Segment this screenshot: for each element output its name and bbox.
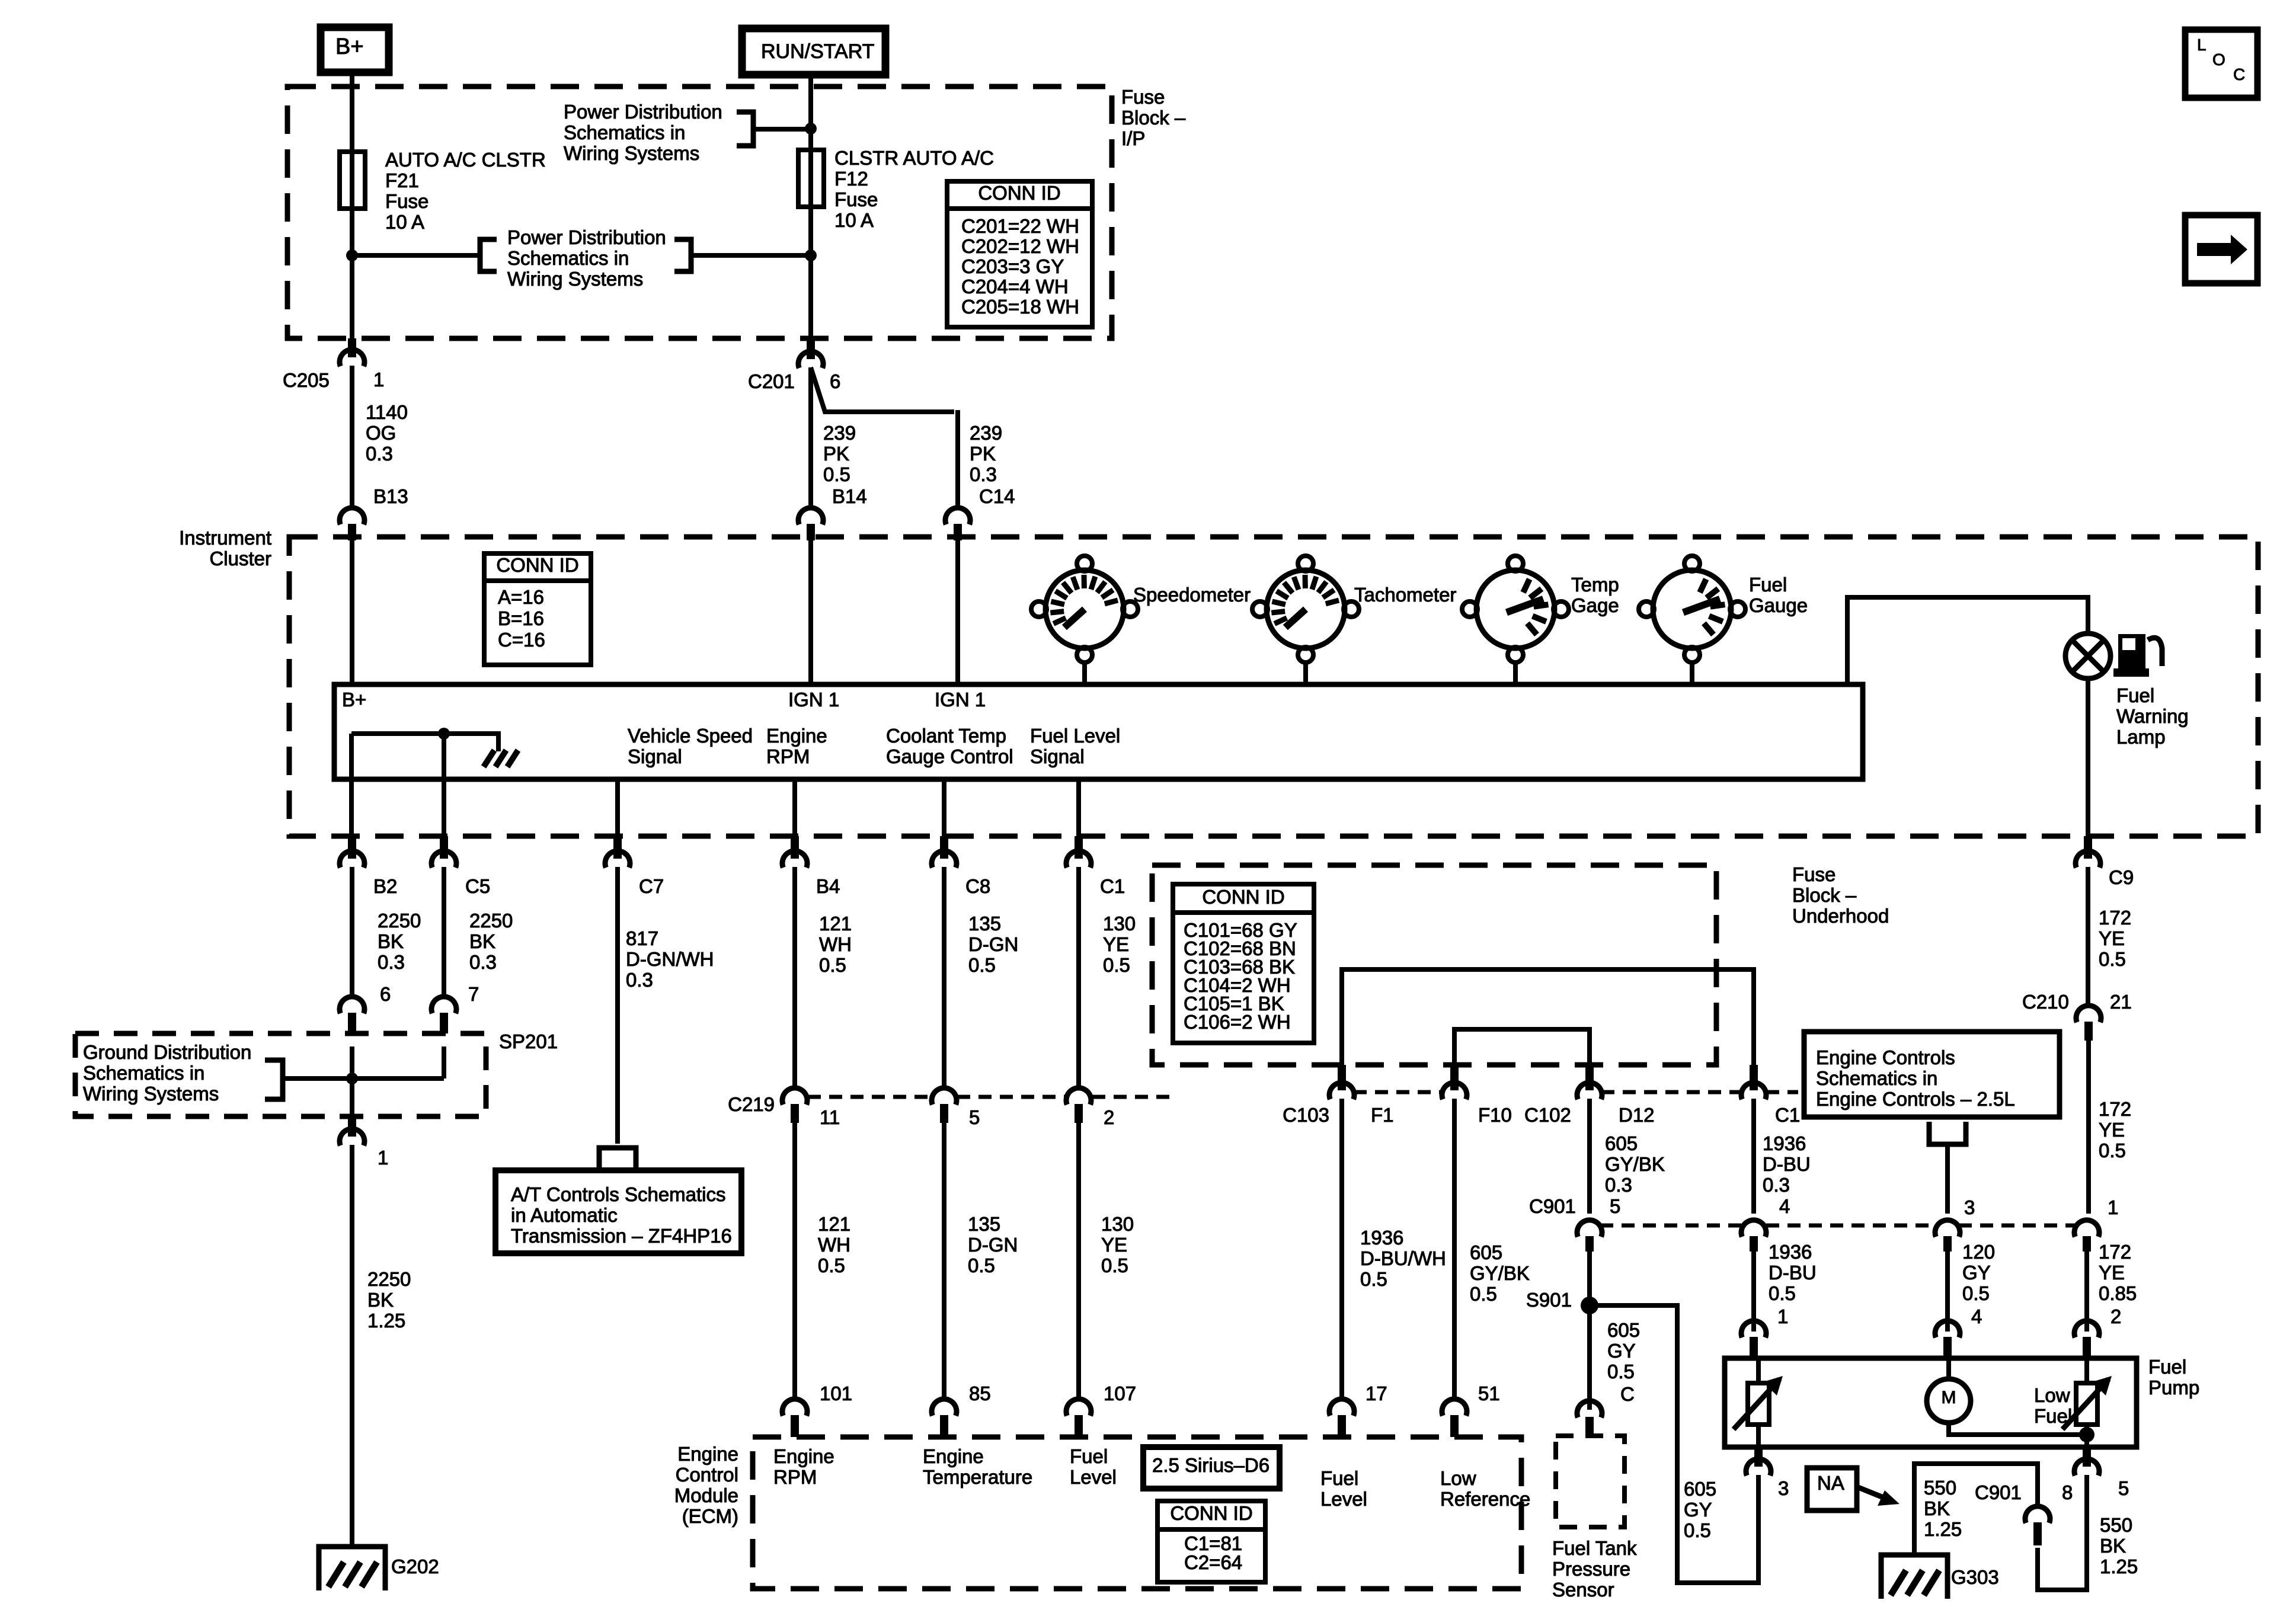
svg-text:605: 605 — [1684, 1478, 1716, 1500]
svg-text:130: 130 — [1103, 913, 1136, 934]
svg-text:C201: C201 — [748, 370, 795, 392]
svg-text:Gauge: Gauge — [1749, 594, 1808, 616]
svg-text:1.25: 1.25 — [367, 1310, 405, 1332]
svg-text:C8: C8 — [965, 875, 990, 897]
svg-text:Fuel Tank: Fuel Tank — [1552, 1537, 1637, 1559]
svg-text:Low: Low — [1440, 1467, 1476, 1489]
svg-text:B+: B+ — [342, 689, 366, 711]
svg-text:Fuel: Fuel — [2116, 684, 2154, 706]
svg-text:C9: C9 — [2109, 866, 2134, 888]
svg-text:CLSTR AUTO A/C: CLSTR AUTO A/C — [834, 147, 994, 169]
svg-text:5: 5 — [1610, 1195, 1620, 1217]
svg-text:85: 85 — [969, 1382, 991, 1404]
svg-text:121: 121 — [818, 1213, 850, 1235]
svg-text:RPM: RPM — [766, 745, 810, 767]
svg-text:Schematics in: Schematics in — [507, 247, 629, 269]
svg-text:2.5 Sirius–D6: 2.5 Sirius–D6 — [1152, 1454, 1269, 1476]
svg-text:Instrument: Instrument — [179, 527, 271, 549]
svg-text:239: 239 — [970, 422, 1002, 444]
svg-text:6: 6 — [830, 370, 840, 392]
svg-text:Temperature: Temperature — [923, 1466, 1032, 1488]
svg-text:4: 4 — [1971, 1305, 1982, 1327]
svg-text:6: 6 — [380, 983, 391, 1005]
svg-text:0.3: 0.3 — [1605, 1174, 1632, 1196]
svg-text:0.5: 0.5 — [1684, 1519, 1711, 1541]
svg-text:172: 172 — [2099, 1241, 2131, 1263]
svg-text:Coolant Temp: Coolant Temp — [886, 725, 1006, 747]
svg-text:C210: C210 — [2022, 991, 2069, 1013]
svg-text:0.5: 0.5 — [968, 954, 996, 976]
svg-text:Control: Control — [676, 1464, 738, 1486]
svg-text:Fuse: Fuse — [1792, 863, 1835, 885]
svg-text:GY: GY — [1684, 1499, 1712, 1521]
svg-text:0.5: 0.5 — [968, 1254, 995, 1276]
svg-text:F10: F10 — [1478, 1104, 1512, 1126]
svg-text:10 A: 10 A — [385, 211, 424, 233]
svg-text:L: L — [2197, 36, 2207, 54]
svg-text:3: 3 — [1778, 1477, 1789, 1499]
svg-text:Fuse: Fuse — [385, 190, 428, 212]
svg-text:Gage: Gage — [1571, 594, 1619, 616]
svg-text:5: 5 — [2118, 1477, 2129, 1499]
svg-text:1: 1 — [1777, 1305, 1788, 1327]
svg-text:0.5: 0.5 — [818, 1254, 845, 1276]
svg-text:5: 5 — [969, 1106, 980, 1128]
svg-text:D-GN/WH: D-GN/WH — [626, 948, 714, 970]
svg-text:0.5: 0.5 — [2099, 948, 2126, 970]
svg-text:21: 21 — [2110, 991, 2132, 1013]
svg-text:RPM: RPM — [773, 1466, 817, 1488]
svg-text:D-BU/WH: D-BU/WH — [1360, 1247, 1446, 1269]
svg-text:WH: WH — [819, 933, 852, 955]
svg-text:AUTO A/C CLSTR: AUTO A/C CLSTR — [385, 149, 546, 171]
svg-text:C102: C102 — [1524, 1104, 1571, 1126]
svg-text:1936: 1936 — [1769, 1241, 1812, 1263]
svg-text:YE: YE — [1101, 1234, 1127, 1256]
svg-text:0.3: 0.3 — [1763, 1174, 1790, 1196]
svg-text:0.5: 0.5 — [1101, 1254, 1128, 1276]
svg-text:C219: C219 — [728, 1093, 775, 1115]
svg-text:Block –: Block – — [1792, 884, 1857, 906]
svg-text:4: 4 — [1779, 1195, 1790, 1217]
svg-text:1: 1 — [373, 369, 384, 391]
svg-text:7: 7 — [468, 983, 479, 1005]
svg-text:IGN 1: IGN 1 — [935, 689, 986, 711]
svg-text:CONN ID: CONN ID — [496, 554, 578, 576]
svg-text:B=16: B=16 — [498, 607, 544, 629]
svg-text:Vehicle Speed: Vehicle Speed — [628, 725, 753, 747]
svg-text:F1: F1 — [1371, 1104, 1394, 1126]
svg-text:B13: B13 — [373, 485, 408, 507]
svg-text:1.25: 1.25 — [2100, 1556, 2138, 1577]
svg-text:Engine: Engine — [766, 725, 827, 747]
svg-text:2250: 2250 — [378, 910, 421, 932]
svg-text:0.5: 0.5 — [1607, 1361, 1635, 1382]
svg-text:C205: C205 — [283, 369, 330, 391]
svg-text:Fuel: Fuel — [2148, 1356, 2186, 1378]
svg-text:Tachometer: Tachometer — [1354, 584, 1456, 606]
svg-text:605: 605 — [1607, 1319, 1640, 1341]
svg-text:S901: S901 — [1526, 1289, 1572, 1311]
svg-text:135: 135 — [968, 913, 1001, 934]
svg-text:Engine: Engine — [773, 1445, 834, 1467]
svg-text:0.3: 0.3 — [970, 463, 997, 485]
svg-text:Reference: Reference — [1440, 1488, 1530, 1510]
svg-text:CONN ID: CONN ID — [1202, 886, 1284, 908]
svg-text:1140: 1140 — [366, 401, 408, 423]
svg-text:Fuel: Fuel — [1320, 1467, 1358, 1489]
svg-text:Wiring Systems: Wiring Systems — [564, 142, 699, 164]
svg-text:0.3: 0.3 — [626, 969, 653, 991]
svg-text:Schematics in: Schematics in — [1816, 1067, 1937, 1089]
svg-text:11: 11 — [820, 1106, 840, 1128]
svg-text:D-GN: D-GN — [968, 933, 1018, 955]
svg-text:172: 172 — [2099, 1098, 2131, 1120]
svg-text:Temp: Temp — [1571, 574, 1619, 596]
svg-text:SP201: SP201 — [499, 1030, 558, 1052]
svg-text:C202=12 WH: C202=12 WH — [961, 235, 1079, 257]
svg-text:550: 550 — [2100, 1514, 2132, 1536]
svg-text:Fuel: Fuel — [1749, 574, 1787, 596]
svg-text:0.5: 0.5 — [819, 954, 846, 976]
svg-text:C14: C14 — [979, 485, 1015, 507]
svg-text:C1: C1 — [1775, 1104, 1800, 1126]
svg-text:1.25: 1.25 — [1924, 1518, 1962, 1540]
svg-text:A/T Controls Schematics: A/T Controls Schematics — [511, 1183, 726, 1205]
svg-text:BK: BK — [378, 930, 404, 952]
svg-text:0.5: 0.5 — [1103, 954, 1130, 976]
svg-text:135: 135 — [968, 1213, 1000, 1235]
svg-text:B14: B14 — [832, 485, 867, 507]
svg-text:B+: B+ — [335, 34, 364, 59]
svg-text:0.5: 0.5 — [1470, 1283, 1497, 1305]
svg-text:Module: Module — [674, 1484, 738, 1506]
svg-text:Fuse: Fuse — [1121, 86, 1165, 108]
svg-text:2: 2 — [2110, 1305, 2121, 1327]
svg-text:GY/BK: GY/BK — [1605, 1153, 1665, 1175]
svg-text:PK: PK — [970, 443, 996, 465]
svg-text:C1: C1 — [1100, 875, 1125, 897]
svg-text:in Automatic: in Automatic — [511, 1204, 618, 1226]
svg-text:C901: C901 — [1529, 1195, 1576, 1217]
svg-text:2250: 2250 — [367, 1268, 411, 1290]
svg-text:Power Distribution: Power Distribution — [507, 226, 666, 248]
svg-text:BK: BK — [469, 930, 495, 952]
svg-text:C5: C5 — [465, 875, 490, 897]
svg-text:C106=2 WH: C106=2 WH — [1184, 1011, 1291, 1033]
svg-text:C901: C901 — [1975, 1481, 2022, 1503]
svg-text:C: C — [1620, 1383, 1635, 1405]
svg-text:17: 17 — [1366, 1382, 1387, 1404]
svg-text:0.3: 0.3 — [378, 951, 405, 973]
svg-text:I/P: I/P — [1121, 127, 1145, 149]
svg-text:Pump: Pump — [2148, 1377, 2199, 1398]
svg-text:OG: OG — [366, 422, 396, 444]
svg-text:Gauge Control: Gauge Control — [886, 745, 1013, 767]
svg-text:130: 130 — [1101, 1213, 1134, 1235]
svg-text:BK: BK — [367, 1289, 394, 1311]
svg-text:0.5: 0.5 — [2099, 1140, 2126, 1161]
svg-text:2: 2 — [1104, 1106, 1114, 1128]
svg-text:C204=4 WH: C204=4 WH — [961, 276, 1069, 297]
svg-text:0.5: 0.5 — [1962, 1282, 1990, 1304]
svg-text:C2=64: C2=64 — [1184, 1551, 1242, 1573]
svg-text:G202: G202 — [391, 1556, 439, 1577]
svg-text:CONN ID: CONN ID — [1170, 1502, 1252, 1524]
svg-text:D12: D12 — [1619, 1104, 1655, 1126]
svg-text:239: 239 — [823, 422, 856, 444]
svg-text:1: 1 — [378, 1147, 388, 1169]
svg-text:Pressure: Pressure — [1552, 1558, 1630, 1580]
svg-text:NA: NA — [1817, 1472, 1844, 1494]
svg-text:YE: YE — [2099, 1119, 2125, 1141]
svg-text:C=16: C=16 — [498, 629, 545, 651]
svg-text:605: 605 — [1470, 1241, 1502, 1263]
svg-text:10 A: 10 A — [834, 209, 874, 231]
svg-text:101: 101 — [820, 1382, 852, 1404]
svg-text:C201=22 WH: C201=22 WH — [961, 215, 1079, 237]
svg-text:Schematics in: Schematics in — [83, 1062, 204, 1084]
svg-text:RUN/START: RUN/START — [761, 40, 874, 63]
svg-text:Signal: Signal — [1030, 745, 1085, 767]
svg-text:Engine: Engine — [677, 1443, 738, 1465]
svg-text:BK: BK — [2100, 1535, 2126, 1557]
svg-text:F12: F12 — [834, 168, 868, 190]
svg-text:M: M — [1942, 1388, 1956, 1407]
svg-text:Cluster: Cluster — [209, 548, 271, 569]
svg-text:A=16: A=16 — [498, 586, 544, 608]
svg-text:YE: YE — [2099, 927, 2125, 949]
svg-text:Wiring Systems: Wiring Systems — [83, 1083, 219, 1105]
svg-text:8: 8 — [2062, 1481, 2073, 1503]
svg-text:BK: BK — [1924, 1497, 1950, 1519]
svg-text:YE: YE — [1103, 933, 1129, 955]
svg-text:Speedometer: Speedometer — [1133, 584, 1251, 606]
svg-text:2250: 2250 — [469, 910, 513, 932]
svg-text:C103: C103 — [1283, 1104, 1329, 1126]
svg-text:Fuel: Fuel — [1070, 1445, 1108, 1467]
svg-text:0.5: 0.5 — [1360, 1268, 1387, 1290]
svg-text:51: 51 — [1478, 1382, 1500, 1404]
svg-text:1: 1 — [2108, 1196, 2118, 1218]
svg-text:D-BU: D-BU — [1763, 1153, 1811, 1175]
svg-text:CONN ID: CONN ID — [978, 182, 1060, 204]
svg-text:GY: GY — [1962, 1262, 1991, 1284]
svg-text:G303: G303 — [1951, 1566, 1999, 1588]
svg-text:Signal: Signal — [628, 745, 682, 767]
svg-text:0.3: 0.3 — [469, 951, 497, 973]
svg-text:B2: B2 — [373, 875, 397, 897]
svg-text:0.85: 0.85 — [2099, 1282, 2137, 1304]
svg-text:1936: 1936 — [1360, 1227, 1403, 1249]
svg-text:120: 120 — [1962, 1241, 1995, 1263]
svg-text:Engine Controls: Engine Controls — [1816, 1046, 1955, 1068]
svg-text:817: 817 — [626, 927, 658, 949]
svg-text:107: 107 — [1104, 1382, 1136, 1404]
svg-text:Underhood: Underhood — [1792, 905, 1889, 927]
svg-text:Engine: Engine — [923, 1445, 984, 1467]
svg-text:Transmission – ZF4HP16: Transmission – ZF4HP16 — [511, 1225, 732, 1247]
svg-text:Low: Low — [2034, 1384, 2070, 1406]
svg-text:Block –: Block – — [1121, 107, 1186, 129]
svg-text:WH: WH — [818, 1234, 850, 1256]
svg-text:PK: PK — [823, 443, 849, 465]
svg-text:IGN 1: IGN 1 — [788, 689, 839, 711]
svg-text:Lamp: Lamp — [2116, 726, 2166, 748]
svg-text:YE: YE — [2099, 1262, 2125, 1284]
svg-text:1936: 1936 — [1763, 1132, 1806, 1154]
svg-text:0.3: 0.3 — [366, 443, 393, 465]
svg-text:C203=3 GY: C203=3 GY — [961, 255, 1064, 277]
svg-text:172: 172 — [2099, 907, 2131, 929]
svg-text:Sensor: Sensor — [1552, 1579, 1614, 1601]
svg-text:0.5: 0.5 — [823, 463, 850, 485]
svg-text:C205=18 WH: C205=18 WH — [961, 296, 1079, 318]
svg-text:D-GN: D-GN — [968, 1234, 1018, 1256]
svg-text:Warning: Warning — [2116, 705, 2189, 727]
svg-text:(ECM): (ECM) — [682, 1505, 738, 1527]
svg-text:Fuel Level: Fuel Level — [1030, 725, 1120, 747]
svg-text:GY/BK: GY/BK — [1470, 1262, 1530, 1284]
svg-text:Engine Controls – 2.5L: Engine Controls – 2.5L — [1816, 1088, 2015, 1110]
svg-text:Level: Level — [1320, 1488, 1367, 1510]
svg-text:Power Distribution: Power Distribution — [564, 101, 722, 123]
svg-text:Level: Level — [1070, 1466, 1117, 1488]
svg-text:O: O — [2212, 50, 2225, 69]
svg-text:D-BU: D-BU — [1769, 1262, 1817, 1284]
svg-text:C: C — [2233, 65, 2245, 84]
svg-text:GY: GY — [1607, 1340, 1636, 1362]
svg-text:C7: C7 — [639, 875, 664, 897]
svg-text:0.5: 0.5 — [1769, 1282, 1796, 1304]
svg-text:121: 121 — [819, 913, 852, 934]
svg-text:Fuse: Fuse — [834, 188, 878, 210]
svg-text:B4: B4 — [816, 875, 840, 897]
svg-text:550: 550 — [1924, 1477, 1956, 1499]
svg-text:3: 3 — [1964, 1196, 1975, 1218]
svg-text:605: 605 — [1605, 1132, 1638, 1154]
svg-text:Schematics in: Schematics in — [564, 121, 685, 143]
svg-text:Wiring Systems: Wiring Systems — [507, 268, 643, 290]
svg-text:Ground Distribution: Ground Distribution — [83, 1041, 251, 1063]
svg-text:F21: F21 — [385, 169, 419, 191]
